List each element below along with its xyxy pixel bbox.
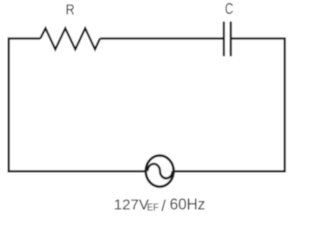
wire: left + bottom-left segment (resistor to AC source left terminal) — [9, 39, 145, 172]
svg-text:EF: EF — [147, 202, 159, 214]
AC source sine wave — [148, 164, 173, 178]
AC source circle — [146, 156, 174, 187]
svg-text:/: / — [161, 198, 166, 214]
capacitor C left plate — [223, 22, 225, 57]
svg-text:R: R — [66, 2, 75, 18]
svg-text:60Hz: 60Hz — [170, 197, 206, 214]
svg-text:C: C — [225, 1, 234, 18]
svg-text:127V: 127V — [114, 197, 149, 214]
wire: top middle segment (resistor to capacitor left plate) — [100, 37, 224, 39]
capacitor C right plate — [230, 22, 232, 57]
resistor R — [40, 28, 100, 49]
wire: right + bottom-right segment (AC source right terminal to capacitor right plate) — [175, 39, 285, 172]
